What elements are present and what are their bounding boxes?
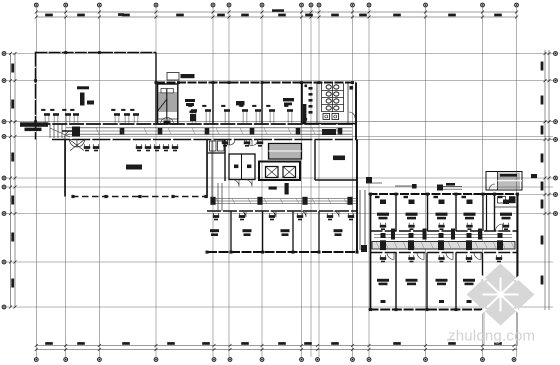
wall middle band top y82.5 (windowed) [156, 82, 356, 84]
wall hall west x65 [64, 140, 66, 197]
wall core east x357 [356, 140, 358, 253]
grid line vertical V15 [516, 8, 518, 358]
core NW cell [207, 140, 225, 182]
wall wing north y194 (windowed) [369, 193, 518, 195]
grid line vertical V5 [212, 8, 214, 358]
column posts block [34, 51, 157, 123]
wing upper room fittings [375, 196, 512, 230]
right dimension band [541, 50, 551, 310]
external stair NE [486, 172, 522, 191]
wall partition x213 [212, 83, 214, 125]
watermark zhulong logo [447, 264, 535, 345]
stair A exit doors [161, 118, 174, 125]
wall corridor south y139.5 [52, 139, 356, 141]
wall hall east x207 [206, 140, 208, 197]
fan-coil units south of corridor [84, 139, 263, 151]
wall core bottom y252 (windowed) [206, 251, 359, 254]
canopy annotation [167, 73, 195, 81]
column bubbles bottom row [34, 358, 515, 362]
room label band 2 [236, 101, 245, 105]
grid line vertical V11 [352, 8, 354, 358]
core vertical duct lines [218, 183, 222, 211]
hall room label [126, 165, 142, 170]
left dimension band [9, 52, 17, 309]
column bubbles top row [34, 3, 518, 7]
corridor doors to core [224, 140, 258, 146]
corridor duct junction west [62, 127, 80, 137]
grid line horizontal H1 [5, 53, 553, 55]
grid line vertical V7 [261, 8, 263, 358]
grid line horizontal H9 [5, 306, 553, 308]
wing corridor main duct [372, 229, 515, 251]
wall east gable x356 [355, 83, 357, 141]
fresh air stub a2 [395, 184, 417, 189]
grid line horizontal H8 [5, 261, 553, 263]
entrance door swing [50, 128, 73, 140]
wall upper-left block right x156 [155, 53, 157, 125]
stairwell A (west) [158, 84, 178, 124]
wall partition x262 [261, 83, 263, 125]
fan-coil units north of corridor [41, 105, 293, 123]
entrance steps [50, 125, 62, 139]
corridor east junction [322, 129, 336, 135]
label in block [87, 101, 94, 105]
equipment riser in block [77, 86, 89, 105]
grid line vertical V9 [310, 8, 312, 358]
row bubbles left column [2, 52, 6, 309]
wall wing west x370.5 [370, 194, 372, 310]
grid line horizontal H2 [5, 80, 553, 82]
grid line horizontal right HR2 [470, 194, 553, 196]
room label band 3 [283, 98, 294, 105]
grid line horizontal H3 [5, 121, 553, 123]
core lower room row [207, 211, 357, 252]
wing-core link duct [360, 190, 367, 252]
grid line vertical V1 [35, 8, 37, 358]
top dimension band [35, 9, 518, 18]
DN annotation [269, 186, 277, 189]
fresh air stub b [366, 177, 382, 183]
grid line vertical V6 [228, 8, 230, 358]
wing NE service cell [495, 196, 518, 231]
terrace edge line [356, 139, 553, 141]
grid line vertical V13 [425, 8, 427, 358]
core east room [315, 140, 357, 181]
core duct drop [208, 141, 213, 198]
core duct run [210, 197, 357, 205]
wall wing south y309.5 (windowed) [369, 308, 520, 310]
hall entrance double door [70, 140, 85, 151]
wall upper-left block top (windowed) [36, 52, 157, 54]
wing lower room fittings [377, 253, 505, 304]
wall partition x301.5 [301, 83, 303, 125]
wall corridor north y124 [36, 123, 357, 125]
duct riser at toilet west wall [303, 104, 307, 123]
row bubbles right column [554, 52, 558, 216]
grid line vertical V8 [301, 8, 303, 358]
stairwell B (core) [269, 144, 302, 160]
hall south glass line [71, 195, 207, 198]
grid line horizontal H7 [5, 213, 553, 215]
unit label row band [190, 111, 197, 122]
svg-text:zhulong.com: zhulong.com [448, 328, 535, 345]
toilet block [302, 83, 356, 124]
grid line horizontal H6 [5, 186, 553, 188]
grid line horizontal H4 [5, 136, 553, 138]
grid line horizontal H5 [5, 177, 553, 179]
room label band 1 [185, 99, 195, 106]
fresh air stub a [437, 185, 462, 191]
grid line vertical V14 [482, 8, 484, 358]
duct riser bar [285, 183, 289, 195]
elevator shafts [259, 162, 300, 181]
stair label [531, 174, 537, 178]
grid line vertical V4 [155, 8, 157, 358]
wing room partitions [369, 193, 519, 312]
corridor duct run [66, 128, 352, 135]
core toilet cells [229, 154, 255, 187]
grid line vertical V10 [318, 8, 320, 358]
extension lines to bottom dim [484, 310, 518, 346]
grid line vertical V3 [98, 8, 100, 358]
wing corridor north wall y231 [371, 230, 518, 232]
grid line vertical V12 [368, 8, 370, 358]
stub a label [446, 183, 455, 186]
bottom dimension band [35, 342, 518, 351]
grid line vertical V2 [65, 8, 67, 358]
entrance label text [20, 122, 48, 131]
wall wing east x517.5 [517, 194, 519, 310]
wing corridor south wall y252.5 [371, 252, 518, 254]
column posts band [155, 81, 354, 84]
wall upper-left block left [35, 52, 37, 140]
